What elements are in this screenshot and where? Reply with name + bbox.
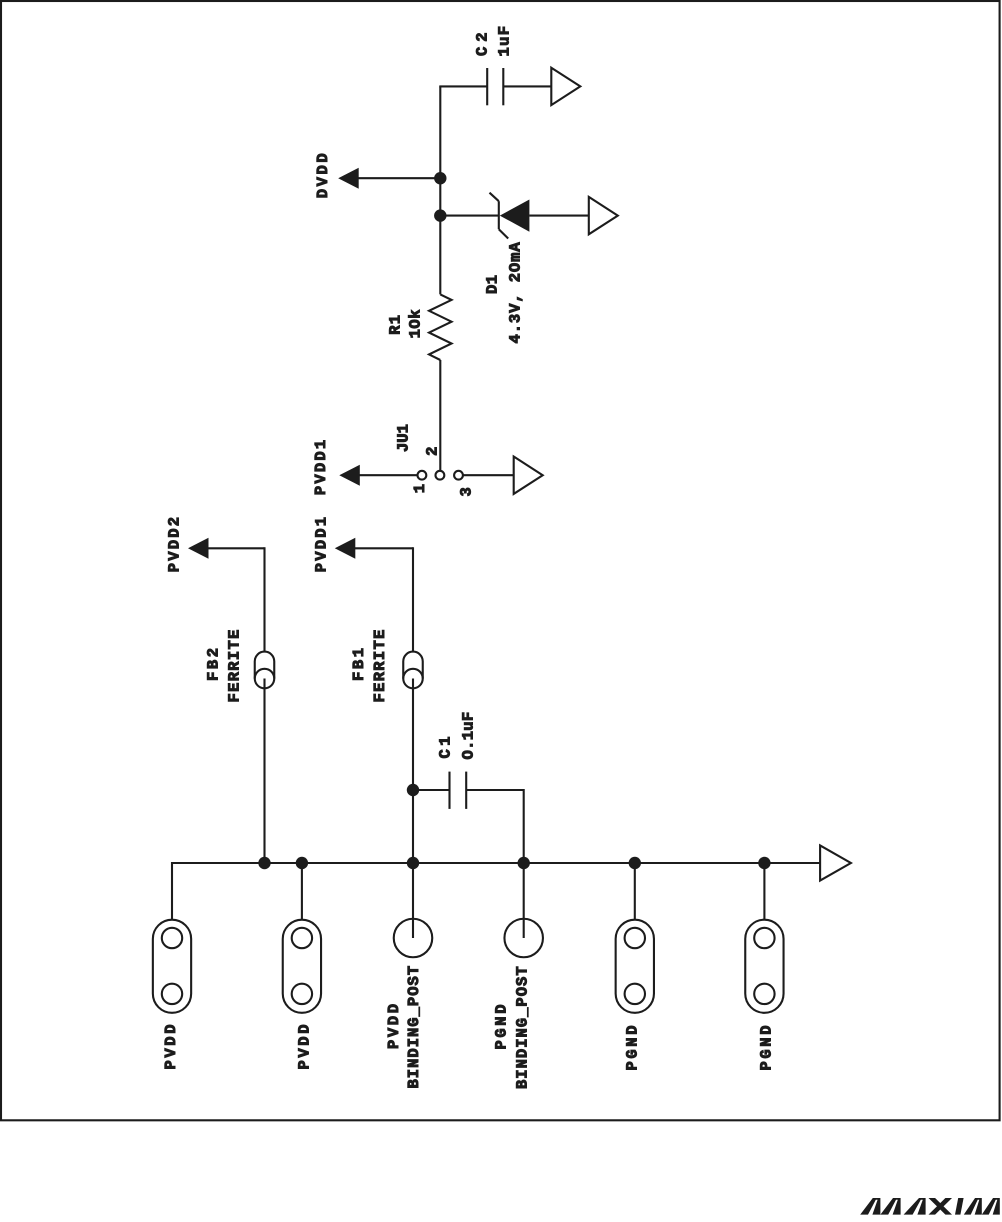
svg-text:FERRITE: FERRITE xyxy=(226,628,244,702)
svg-text:FB2: FB2 xyxy=(205,645,223,681)
svg-text:PVDD: PVDD xyxy=(296,1022,314,1070)
svg-text:PVDD1: PVDD1 xyxy=(312,438,330,496)
svg-text:2: 2 xyxy=(423,445,441,456)
svg-text:C2: C2 xyxy=(474,27,492,56)
svg-text:3: 3 xyxy=(458,486,476,497)
svg-text:PVDD2: PVDD2 xyxy=(166,515,184,573)
svg-text:FERRITE: FERRITE xyxy=(371,628,389,702)
svg-text:4.3V, 2OmA: 4.3V, 2OmA xyxy=(507,241,525,343)
svg-text:1: 1 xyxy=(411,483,429,494)
svg-text:D1: D1 xyxy=(484,274,502,294)
svg-text:PGND: PGND xyxy=(493,1002,511,1050)
svg-text:DVDD: DVDD xyxy=(314,151,332,199)
svg-text:PGND: PGND xyxy=(624,1023,642,1071)
svg-text:1Ok: 1Ok xyxy=(407,309,425,338)
svg-text:R1: R1 xyxy=(386,314,404,335)
svg-text:BINDING_POST: BINDING_POST xyxy=(514,965,532,1089)
svg-text:BINDING_POST: BINDING_POST xyxy=(405,965,423,1089)
svg-text:FB1: FB1 xyxy=(350,645,368,681)
svg-text:1uF: 1uF xyxy=(496,25,514,57)
svg-text:PVDD: PVDD xyxy=(162,1022,180,1070)
svg-text:C1: C1 xyxy=(437,733,455,759)
svg-text:PGND: PGND xyxy=(758,1023,776,1071)
svg-text:PVDD: PVDD xyxy=(385,1001,403,1049)
svg-text:PVDD1: PVDD1 xyxy=(313,515,331,573)
svg-text:JU1: JU1 xyxy=(395,424,413,452)
svg-text:O.1uF: O.1uF xyxy=(460,711,478,759)
